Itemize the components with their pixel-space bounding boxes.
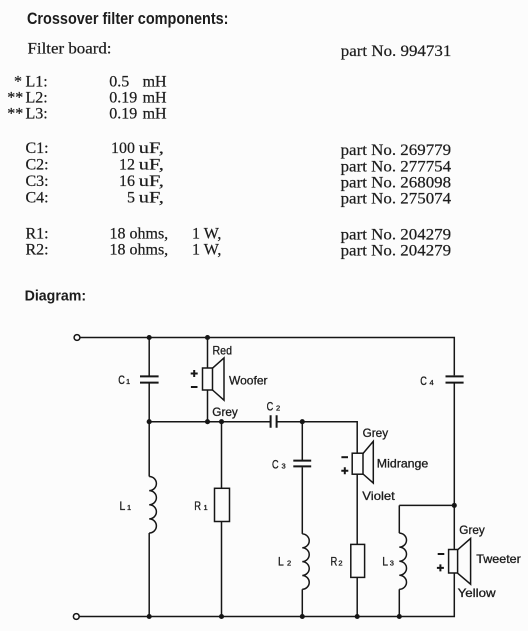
svg-text:uF,: uF, [139, 140, 164, 157]
svg-text:C2:: C2: [26, 157, 49, 174]
svg-text:*: * [14, 73, 22, 90]
svg-text:C: C [272, 457, 279, 471]
svg-text:C3:: C3: [26, 173, 49, 190]
svg-text:R2:: R2: [26, 241, 49, 258]
svg-text:100: 100 [111, 140, 135, 157]
svg-text:16: 16 [119, 173, 135, 190]
svg-text:mH: mH [143, 73, 167, 90]
svg-text:1 W,: 1 W, [192, 225, 221, 242]
svg-text:part No. 994731: part No. 994731 [341, 43, 452, 60]
svg-text:Crossover filter components:: Crossover filter components: [27, 9, 229, 28]
svg-text:**: ** [7, 105, 23, 122]
svg-text:uF,: uF, [139, 189, 164, 206]
svg-text:part No. 204279: part No. 204279 [341, 243, 452, 260]
svg-text:R: R [331, 555, 338, 569]
svg-text:L: L [278, 555, 284, 569]
svg-text:Tweeter: Tweeter [476, 552, 521, 566]
svg-text:Woofer: Woofer [229, 373, 268, 387]
svg-text:Midrange: Midrange [377, 457, 429, 471]
svg-text:C: C [267, 400, 274, 414]
svg-text:Filter board:: Filter board: [28, 41, 112, 58]
svg-text:C4:: C4: [26, 189, 49, 206]
svg-text:L: L [382, 555, 388, 569]
svg-text:part No. 275074: part No. 275074 [341, 190, 452, 207]
svg-text:C1:: C1: [26, 140, 49, 157]
svg-text:part No. 268098: part No. 268098 [341, 175, 452, 192]
svg-text:2: 2 [287, 559, 291, 568]
svg-text:L2:: L2: [26, 90, 48, 107]
svg-text:Yellow: Yellow [458, 586, 496, 600]
svg-text:Grey: Grey [459, 523, 485, 537]
svg-text:L3:: L3: [26, 105, 48, 122]
svg-text:Grey: Grey [363, 426, 389, 440]
svg-text:uF,: uF, [139, 157, 164, 174]
svg-text:mH: mH [143, 90, 167, 107]
svg-text:0.19: 0.19 [109, 105, 137, 122]
svg-text:1: 1 [127, 503, 131, 512]
svg-text:R1:: R1: [26, 225, 49, 242]
svg-text:3: 3 [390, 559, 394, 568]
svg-text:Diagram:: Diagram: [25, 287, 87, 304]
svg-text:L: L [120, 499, 126, 513]
svg-text:part No. 277754: part No. 277754 [341, 158, 452, 175]
svg-text:2: 2 [338, 559, 342, 568]
svg-text:3: 3 [282, 461, 286, 470]
svg-text:part No. 204279: part No. 204279 [341, 227, 452, 244]
svg-text:C: C [420, 374, 427, 388]
svg-text:uF,: uF, [139, 173, 164, 190]
svg-text:4: 4 [430, 378, 434, 387]
svg-text:1: 1 [204, 503, 208, 512]
svg-text:mH: mH [143, 105, 167, 122]
svg-text:12: 12 [119, 157, 135, 174]
svg-text:R: R [194, 499, 201, 513]
svg-text:1 W,: 1 W, [192, 241, 221, 258]
svg-text:C: C [118, 373, 125, 387]
svg-text:part No. 269779: part No. 269779 [341, 142, 452, 159]
svg-text:2: 2 [276, 404, 280, 413]
svg-text:Violet: Violet [362, 489, 395, 503]
svg-text:**: ** [7, 90, 23, 107]
svg-text:1: 1 [126, 377, 130, 386]
svg-text:Red: Red [213, 343, 233, 357]
svg-text:0.5: 0.5 [109, 73, 129, 90]
svg-text:L1:: L1: [26, 73, 48, 90]
svg-text:18 ohms,: 18 ohms, [110, 225, 169, 242]
svg-text:Grey: Grey [212, 405, 238, 419]
svg-text:5: 5 [127, 189, 135, 206]
svg-text:0.19: 0.19 [109, 90, 137, 107]
svg-text:18 ohms,: 18 ohms, [110, 241, 169, 258]
